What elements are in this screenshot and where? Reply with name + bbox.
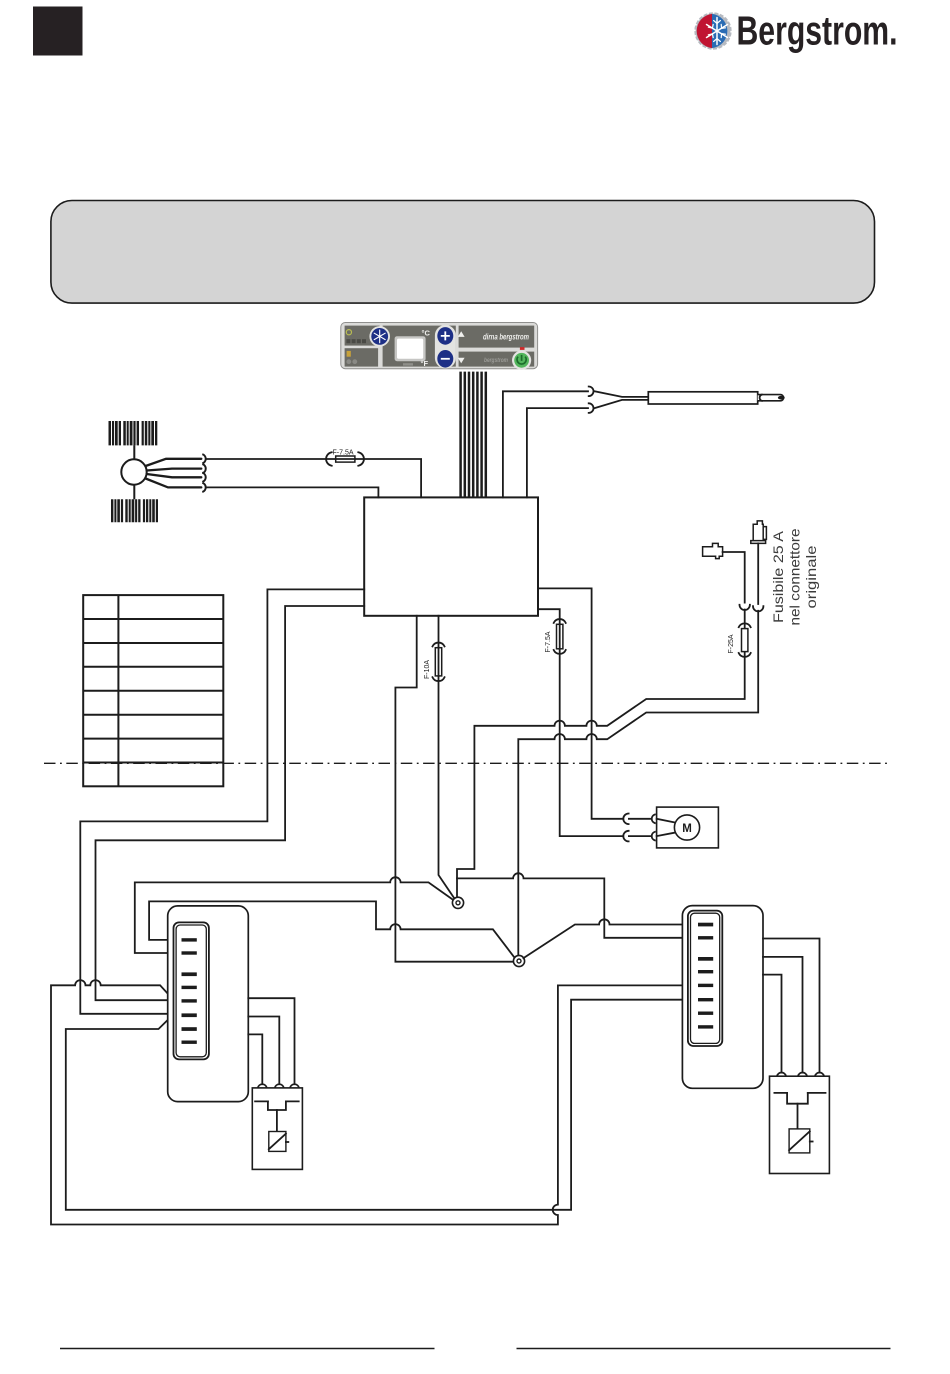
- wire: node N1 branch to right connector pin 2: [457, 873, 701, 938]
- svg-text:F-25A: F-25A: [728, 634, 735, 653]
- wires: left connector to relay K1: [248, 998, 294, 1083]
- wire: blower wire 4 to control unit: [207, 487, 378, 497]
- relay K1 box: [252, 1088, 302, 1170]
- wire net A: left pin 5 to right pin 5 (bottom loop): [51, 980, 701, 1224]
- spade terminal (horizontal): [703, 543, 723, 558]
- title box (empty gray rounded rectangle): [51, 201, 875, 304]
- blower connector arcs: [202, 454, 205, 492]
- sensor connector arc upper: [589, 387, 594, 397]
- wire h2: node N2 riser to original-connector branch: [518, 611, 758, 955]
- wire: control unit right to motor (upper): [538, 588, 623, 818]
- svg-text:F-10A: F-10A: [424, 660, 431, 679]
- right connector housing X2: [682, 906, 763, 1089]
- label Fusibile 25 A nel connettore originale: [770, 528, 819, 625]
- svg-text:originale: originale: [803, 545, 819, 608]
- control unit box U1: [364, 497, 538, 615]
- blower connector top (hatched): [109, 421, 159, 445]
- svg-text:F-7.5A: F-7.5A: [333, 449, 354, 456]
- ribbon cable from panel to control unit: [461, 372, 486, 497]
- svg-text:°F: °F: [421, 359, 429, 368]
- wire: control unit to temperature sensor (upper): [503, 391, 588, 497]
- left connector housing X1: [168, 906, 249, 1102]
- left connector pins: [182, 938, 197, 1044]
- wire net B: left pin 6 to right pin 6 (bottom loop): [66, 1000, 701, 1210]
- wires: right connector to relay K2: [763, 939, 820, 1072]
- svg-text:°C: °C: [422, 328, 431, 337]
- relay K2 pin arcs: [777, 1073, 824, 1077]
- svg-text:dirna bergstrom: dirna bergstrom: [483, 333, 529, 342]
- wire: spade terminal to F-25A: [723, 552, 745, 603]
- wire: node N1 to left connector pin 2: [135, 877, 453, 953]
- motor connector arcs lower pair: [623, 831, 655, 842]
- blower wire 3: [147, 474, 202, 477]
- fuse F2 F-10A (vertical): [433, 643, 445, 682]
- motor connector arcs upper pair: [623, 814, 655, 825]
- wire: blower to fuse F-7.5A and control unit: [207, 459, 421, 497]
- svg-text:M: M: [682, 823, 692, 835]
- fuse F1 F-7.5A (horizontal): [326, 452, 364, 465]
- spade terminal (vertical): [751, 521, 767, 544]
- wire h1: node N1 riser to fuse F-25A branch: [457, 610, 745, 898]
- connector break arc on F-25A branch: [740, 605, 750, 610]
- junction node N2: [513, 955, 524, 966]
- svg-text:bergstrom: bergstrom: [484, 357, 508, 364]
- control panel: [341, 323, 538, 370]
- connector break arc on branch x758: [753, 606, 763, 611]
- wire: vertical spade terminal down: [757, 543, 759, 604]
- blower motor shaft line: [133, 445, 135, 499]
- wire: control unit to temperature sensor (lower): [527, 408, 588, 497]
- svg-text:nel connettore: nel connettore: [787, 528, 803, 625]
- fuse table: [83, 595, 223, 786]
- footer rule left: [60, 1348, 435, 1350]
- Bergstrom logo: [694, 8, 897, 54]
- wire: left connector pin 1 to node N2: [149, 901, 514, 957]
- wire: control unit right through fuse F-7.5A to motor (lower): [538, 609, 623, 836]
- black corner square: [33, 7, 83, 56]
- blower motor circle B1: [121, 459, 146, 484]
- fuse F3 F-7.5A (vertical): [554, 619, 566, 654]
- relay K2 box: [770, 1076, 830, 1173]
- fuse F4 F-25A (vertical): [739, 623, 751, 657]
- blower connector bottom (hatched): [111, 499, 159, 522]
- relay K2 contact and coil: [774, 1093, 825, 1153]
- right connector pins: [698, 923, 713, 1029]
- footer rule right: [517, 1348, 891, 1350]
- firewall dash-dot line: [44, 762, 890, 764]
- blower wire 1: [146, 459, 202, 466]
- svg-text:Bergstrom.: Bergstrom.: [737, 8, 898, 54]
- blower wire 4: [146, 479, 202, 488]
- junction node N1: [452, 897, 463, 908]
- wire: control unit left pin to left connector pin 5: [96, 606, 365, 1000]
- wire: control unit left pin to left connector pin 6: [80, 589, 364, 1013]
- motor M1 box: [657, 807, 719, 848]
- temperature sensor probe: [595, 391, 785, 408]
- blower wire 2: [147, 469, 202, 471]
- wire: control unit bottom to node N2 (left vertical): [395, 616, 514, 962]
- svg-text:Fusibile 25 A: Fusibile 25 A: [770, 530, 786, 623]
- relay K1 contact and coil: [255, 1101, 299, 1151]
- wire: control unit bottom through fuse F-10A to node N1: [439, 616, 456, 900]
- sensor connector arc lower: [589, 403, 594, 413]
- relay K1 pin arcs: [258, 1084, 299, 1088]
- wire: node N2 to right connector pin 1: [523, 919, 700, 958]
- svg-text:F-7.5A: F-7.5A: [545, 631, 552, 652]
